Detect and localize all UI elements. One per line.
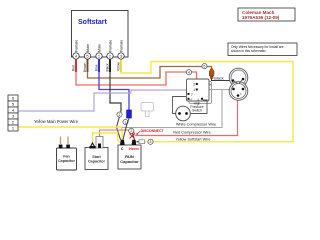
svg-text:Capacitor: Capacitor bbox=[88, 160, 106, 164]
svg-text:2: 2 bbox=[130, 129, 132, 133]
fan motor wires bbox=[60, 137, 62, 146]
wire: disconnected stub from Herm post bbox=[131, 128, 135, 140]
wire: high pressure switch right to relay pin 5 bbox=[191, 100, 208, 114]
note box bbox=[228, 43, 297, 56]
compressor: motor housing upper circle (run protector) bbox=[229, 68, 248, 87]
disconnect X mark bbox=[130, 134, 135, 139]
wire: purple thermostat wire from terminal strip to relay terminal 7 bbox=[18, 90, 186, 111]
softstart terminal 3 bbox=[118, 53, 124, 59]
wire stub blue with label bbox=[98, 60, 100, 73]
relay pin 7 bbox=[188, 93, 190, 95]
svg-text:Start: Start bbox=[92, 155, 101, 159]
wire: red start-capacitor bleed resistor wire to Herm (disconnected) bbox=[100, 130, 136, 137]
wire: brown softstart wire from terminal 5 to wire nut bbox=[88, 59, 212, 78]
svg-text:White Compressor Wire: White Compressor Wire bbox=[176, 123, 216, 127]
wire: black softstart wire from terminal 2 toward run capacitor C bbox=[110, 59, 121, 111]
svg-text:Male: Male bbox=[97, 44, 101, 52]
wire stub yellow with label bbox=[120, 60, 122, 73]
softstart terminal 5 bbox=[84, 53, 90, 59]
step circle 5 on brown wire bbox=[202, 64, 207, 69]
svg-text:Yellow: Yellow bbox=[116, 61, 120, 71]
step circle 3 bbox=[148, 139, 153, 144]
svg-text:R: R bbox=[244, 86, 246, 89]
svg-text:C: C bbox=[121, 147, 124, 151]
svg-text:3: 3 bbox=[150, 140, 152, 144]
relay pin 5 bbox=[201, 98, 203, 100]
title box: Coleman Mach bbox=[238, 8, 295, 21]
svg-text:Capacitor: Capacitor bbox=[58, 159, 76, 163]
wire: dashed removed black wire from relay terminal 2 bbox=[198, 83, 207, 85]
svg-text:Softstart: Softstart bbox=[78, 19, 107, 26]
compressor pin R bbox=[242, 88, 245, 91]
run capacitor bbox=[118, 145, 141, 169]
svg-text:2: 2 bbox=[193, 83, 195, 87]
wire nut: orange wire nut joining brown to black bbox=[209, 69, 214, 79]
relay pin 1 bbox=[196, 89, 198, 91]
svg-text:Black: Black bbox=[214, 77, 223, 81]
wire: white compressor wire from relay terminal 1 and start winding to C bbox=[122, 90, 222, 128]
high pressure switch bbox=[176, 106, 191, 121]
svg-text:Brown: Brown bbox=[83, 62, 87, 72]
wire: yellow main power wire from terminal strip to run capacitor C bbox=[18, 127, 122, 140]
svg-text:Fan: Fan bbox=[63, 155, 70, 159]
wire: black diagonal from disconnect area to C bbox=[123, 119, 129, 140]
svg-text:7: 7 bbox=[191, 93, 193, 97]
svg-text:Female: Female bbox=[119, 40, 123, 52]
svg-text:1: 1 bbox=[193, 88, 195, 92]
svg-text:4: 4 bbox=[188, 71, 190, 75]
step circle 1 bbox=[123, 119, 128, 124]
bleed resistor on start capacitor bbox=[96, 137, 103, 149]
softstart terminal 2 bbox=[107, 53, 113, 59]
svg-text:Red Compressor Wire: Red Compressor Wire bbox=[173, 131, 211, 135]
svg-text:Blue: Blue bbox=[94, 64, 98, 71]
wire: red compressor wire from C pin down and left to Herm area bbox=[136, 97, 238, 136]
svg-text:Black: Black bbox=[105, 63, 109, 71]
unused connector plug symbol bbox=[141, 103, 154, 112]
svg-text:Male: Male bbox=[86, 44, 90, 52]
relay: PTCR start relay box bbox=[187, 79, 210, 101]
svg-text:Female: Female bbox=[74, 40, 78, 52]
svg-text:2: 2 bbox=[119, 113, 121, 117]
wire: yellow softstart wire from terminal 3 around right side bbox=[121, 59, 293, 142]
softstart controller box bbox=[72, 11, 129, 58]
wire: black diagonal lead from terminal 2 wire down to C post bbox=[117, 111, 122, 140]
start capacitor left terminal bbox=[90, 143, 95, 148]
relay pin 4 bbox=[188, 98, 190, 100]
svg-text:C: C bbox=[240, 93, 242, 96]
svg-text:Switch: Switch bbox=[192, 109, 202, 113]
svg-text:Herm: Herm bbox=[129, 147, 139, 151]
wire: red softstart wire from terminal 4 to relay terminal 2 bbox=[76, 59, 197, 85]
compressor pin C bbox=[237, 94, 240, 97]
svg-text:shown in this schematic: shown in this schematic bbox=[231, 49, 266, 53]
compressor overload pins bbox=[232, 79, 235, 82]
step circle at Herm disconnect bbox=[129, 128, 134, 133]
wire: relay to high pressure switch left bbox=[173, 97, 187, 114]
softstart terminal 4 bbox=[73, 53, 79, 59]
compressor: motor housing lower circle (terminals) bbox=[229, 82, 248, 101]
relay pin 2 bbox=[196, 83, 198, 85]
softstart terminal 1 bbox=[96, 53, 102, 59]
connector: male spade on yellow softstart wire at Herm bbox=[137, 141, 140, 143]
start capacitor bbox=[85, 148, 108, 170]
wire stub brown with label bbox=[87, 60, 89, 73]
wire: yellow start capacitor jumper to C terminal bbox=[93, 133, 120, 143]
run capacitor Herm post bbox=[132, 140, 137, 145]
wire: start winding lead to S terminal bbox=[222, 89, 233, 91]
compressor pin S bbox=[232, 88, 235, 91]
wire: black compressor feed from wire nut to compressor R pin bbox=[212, 79, 234, 81]
svg-text:Red: Red bbox=[71, 65, 75, 71]
terminal strip bbox=[8, 95, 18, 131]
fan capacitor bbox=[57, 148, 77, 170]
svg-text:Yellow Softstart Wire: Yellow Softstart Wire bbox=[176, 138, 211, 142]
svg-text:Female: Female bbox=[108, 40, 112, 52]
wire stub red with label bbox=[75, 60, 77, 73]
svg-text:Capacitor: Capacitor bbox=[120, 159, 139, 164]
svg-text:1: 1 bbox=[125, 120, 127, 124]
svg-text:DISCONNECT: DISCONNECT bbox=[141, 129, 165, 133]
svg-text:5: 5 bbox=[204, 65, 206, 69]
connector: open female spade (disconnected) bbox=[207, 83, 211, 87]
wire: blue softstart wire from terminal 1 to female disconnect bbox=[99, 59, 129, 110]
step circle 4 on red wire bbox=[186, 70, 191, 75]
fan capacitor terminal posts bbox=[59, 145, 63, 149]
svg-text:1976A536 (12-09): 1976A536 (12-09) bbox=[242, 15, 280, 20]
svg-text:Yellow Main Power Wire: Yellow Main Power Wire bbox=[34, 119, 79, 124]
relay enclosure: outer rounded rectangle bbox=[189, 82, 212, 104]
run capacitor C post bbox=[120, 140, 125, 145]
connector: blue female disconnect on blue wire bbox=[127, 110, 132, 118]
step circle 2 bbox=[117, 112, 122, 117]
wire stub black with label bbox=[109, 60, 111, 73]
